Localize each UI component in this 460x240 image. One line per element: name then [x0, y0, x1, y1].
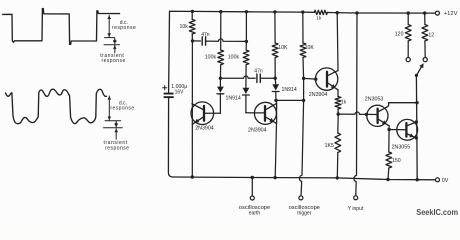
svg-text:1N914: 1N914: [226, 95, 241, 101]
wire: rail to Q3 collector: [336, 13, 339, 71]
junction pole column to 0V rail: [416, 178, 419, 181]
switch lever with arrowhead: [416, 65, 422, 76]
svg-text:2N3055: 2N3055: [392, 144, 411, 150]
svg-text:2N3904: 2N3904: [248, 128, 267, 134]
junction collector line / switch column: [415, 101, 418, 104]
switch pole dot: [415, 74, 418, 77]
wire: rail to C1 node: [245, 12, 247, 42]
wire: Q2 collector column: [275, 100, 278, 103]
svg-text:2N3904: 2N3904: [195, 126, 214, 132]
wire: D1 cathode to Q1 base: [204, 112, 220, 114]
wire: left rail upper (to reservoir cap): [168, 11, 171, 92]
wire: C1 to col 246 with hop over col 221: [206, 39, 247, 42]
terminal 0V: [436, 178, 440, 182]
diode D2 1N914: [243, 88, 250, 94]
junction trigger takeoff: [302, 99, 305, 102]
svg-text:2N3053: 2N3053: [365, 97, 384, 103]
svg-text:1N914: 1N914: [282, 87, 297, 93]
svg-text:SeekIC.com: SeekIC.com: [416, 208, 458, 217]
junction on +12V rail (10k): [191, 10, 194, 13]
diode D3 1N914: [274, 78, 277, 84]
junction on +12V rail (Q3 collector): [336, 11, 339, 14]
junction Q2 emitter to 0V rail: [273, 176, 276, 179]
terminal +12V: [435, 11, 439, 15]
svg-text:response: response: [102, 58, 126, 64]
wire: Q2 collector to trigger column: [276, 99, 304, 101]
diode D1 1N914: [219, 78, 221, 86]
wire: C2 left with hop over col 246: [220, 76, 255, 78]
wire: col 303 down to collector tie: [303, 78, 305, 100]
terminal Y input: [354, 196, 358, 200]
capacitor C1 47n: [201, 37, 203, 45]
node: 1k/1K5/base junction: [337, 112, 340, 115]
junction 150 to 0V rail: [386, 178, 389, 181]
wire: 100k-1 to node: [219, 65, 221, 79]
junction at Q3 base edge: [314, 78, 317, 81]
resistor R7 1K5: [337, 114, 339, 133]
tick line lower (top waveform): [104, 44, 120, 46]
node: Q3 base tap: [302, 77, 305, 80]
wire: base feed to Q3: [304, 77, 316, 80]
svg-text:2N3904: 2N3904: [309, 92, 328, 98]
svg-text:response: response: [112, 25, 136, 31]
svg-text:0V: 0V: [442, 178, 449, 184]
dimension arrow: transient gap (bottom waveform): [115, 122, 117, 128]
svg-text:16V: 16V: [175, 90, 185, 96]
resistor R5 10K: [302, 12, 304, 43]
resistor R9 120: [407, 13, 409, 24]
resistor R6 1k (Q3 emitter): [337, 90, 339, 97]
wire: collector line to switch column: [389, 102, 417, 104]
node A: Q1 collector node: [191, 39, 194, 42]
wire: D2 cathode to Q2 base: [246, 112, 265, 114]
wire: Y-input line with hop over 0V rail: [354, 13, 357, 196]
junction on +12V rail (10K-1): [273, 10, 276, 13]
transistor Q3 2N3904: [315, 68, 337, 90]
wire: node to 100k-2: [245, 41, 247, 50]
node: Q2 collector: [274, 99, 277, 102]
wire: 2N3053 collector riser: [388, 103, 390, 106]
terminal oscilloscope trigger: [299, 196, 303, 200]
svg-text:47n: 47n: [201, 32, 210, 38]
junction on +12V rail (120R): [407, 11, 410, 14]
dimension arrow: d.c. response (bottom waveform): [108, 96, 110, 120]
transistor Q5 2N3055: [397, 119, 418, 140]
junction C1 / 100k-2 column: [245, 40, 248, 43]
plus sign for electrolytic: [163, 87, 167, 89]
tick line upper (bottom waveform): [105, 120, 121, 122]
svg-text:+12V: +12V: [444, 11, 458, 17]
resistor R1 10k: [191, 11, 193, 19]
transistor Q1 2N3904: [191, 102, 214, 125]
wire: +12V top rail (right half): [327, 12, 435, 15]
wire: C2 to 10K-1 node: [260, 77, 275, 79]
up arrow to transient tick (bottom waveform): [115, 129, 117, 139]
junction at 2N3053 base edge: [365, 113, 368, 116]
svg-text:10K: 10K: [305, 45, 315, 51]
resistor R3 100k: [243, 50, 249, 65]
svg-text:10K: 10K: [278, 45, 288, 51]
wire: +12V top rail (left half): [170, 11, 315, 12]
transistor Q4 2N3053: [367, 105, 388, 126]
junction 1K5 to 0V rail: [336, 176, 339, 179]
svg-text:1K5: 1K5: [325, 143, 334, 149]
junction on +12V rail (10K-2): [301, 10, 304, 13]
wire: oscilloscope trigger line with hop over 0V rail: [299, 100, 303, 195]
junction Q1 emitter to 0V rail: [191, 175, 194, 178]
wire: 100k-2 to D2: [245, 65, 247, 88]
dimension arrow: d.c. response (top waveform): [108, 15, 110, 37]
tick line lower (bottom waveform): [104, 127, 123, 129]
wire: switch pole column: [415, 76, 418, 180]
terminal oscilloscope earth: [250, 196, 254, 200]
svg-text:response: response: [110, 105, 134, 111]
wire: 2N3053 emitter down to base node: [388, 126, 390, 130]
wire: node A to C1: [193, 40, 201, 42]
capacitor C2 47n: [256, 74, 258, 82]
resistor R8 150: [388, 130, 390, 153]
svg-text:150: 150: [392, 158, 401, 164]
wire: Q1 collector column: [191, 41, 193, 177]
junction on +12V rail (100k-1): [219, 10, 222, 13]
wire: earth stub: [251, 178, 253, 197]
resistor R2 100k: [218, 50, 224, 65]
resistor R4 10K: [274, 12, 276, 43]
node: 10K-1 / D3 / C2: [274, 77, 277, 80]
wire: left rail lower + bottom-left corner: [168, 98, 173, 177]
svg-text:12: 12: [428, 32, 434, 38]
svg-text:10k: 10k: [180, 24, 189, 30]
tick line upper (top waveform): [105, 37, 115, 39]
wire: rail to 100k-1: [220, 12, 222, 50]
capacitor C 1000u 16V electrolytic: [164, 93, 174, 95]
wire: to 2N3053 base with hop over Y-input line: [338, 112, 366, 114]
svg-text:120: 120: [395, 32, 404, 38]
svg-text:earth: earth: [249, 210, 261, 216]
transistor Q2 2N3904: [254, 102, 276, 124]
node: 2N3053 emitter / 2N3055 base / 150R: [387, 128, 390, 131]
node: 100k-1 / D1 / C2: [219, 77, 222, 80]
svg-text:100k: 100k: [228, 54, 240, 60]
svg-text:response: response: [105, 145, 129, 151]
waveform: distorted square wave trace: [6, 89, 107, 124]
junction on +12V rail (Y line): [355, 11, 358, 14]
switch contact b: [423, 58, 427, 62]
junction 2N3055 collector: [415, 120, 418, 123]
svg-text:1k: 1k: [316, 16, 322, 22]
wire: Q2 emitter to 0V: [275, 123, 276, 177]
junction on +12V rail (12R): [423, 11, 426, 14]
svg-text:100k: 100k: [205, 54, 217, 60]
wire: 0V bottom rail: [173, 177, 436, 180]
svg-text:1k: 1k: [341, 100, 347, 106]
up arrow to transient tick (top waveform): [114, 46, 116, 53]
svg-text:trigger: trigger: [297, 210, 312, 216]
waveform: ideal square wave trace: [3, 9, 120, 45]
resistor R10 12: [424, 13, 426, 24]
switch contact a: [406, 58, 410, 62]
junction on +12V rail (100k-2): [245, 10, 248, 13]
junction earth stub on 0V rail: [251, 176, 254, 179]
svg-text:47n: 47n: [254, 68, 263, 74]
junction 2N3055 emitter: [415, 136, 418, 139]
svg-text:Y input: Y input: [348, 206, 364, 212]
dimension arrow: transient gap (top waveform): [114, 38, 116, 44]
resistor R 1k (series in +12V rail): [314, 10, 327, 14]
